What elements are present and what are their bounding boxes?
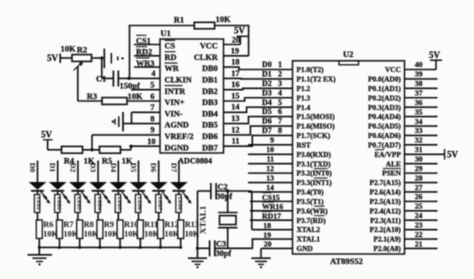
label ADC0804 [178, 157, 212, 166]
svg-text:7: 7 [150, 103, 154, 112]
resistor R10 10K [117, 213, 139, 239]
wire D6 bus DB6 to P1.6 [224, 126, 293, 135]
node D2 [262, 79, 282, 88]
wire [215, 25, 249, 27]
svg-text:VCC: VCC [385, 65, 401, 74]
resistor R1 [174, 14, 231, 29]
wire [38, 239, 40, 248]
svg-text:P0.6(AD6): P0.6(AD6) [368, 131, 401, 140]
svg-text:23: 23 [415, 220, 423, 229]
pin 32 [405, 136, 438, 145]
node D2 label [68, 163, 77, 173]
svg-text:LED5: LED5 [116, 197, 122, 211]
svg-text:LED1: LED1 [35, 197, 41, 211]
svg-text:5: 5 [278, 98, 282, 107]
capacitor C1 150pf [96, 71, 140, 91]
svg-text:P2.4(A12): P2.4(A12) [370, 206, 402, 215]
capacitor C3 30pf [210, 240, 232, 259]
svg-text:DB3: DB3 [202, 98, 218, 107]
wire [224, 25, 249, 56]
op-amp U2 AT89S52 IC body [293, 49, 405, 254]
pin 28 [405, 173, 438, 182]
svg-text:19: 19 [263, 230, 271, 239]
pin 40 [415, 60, 423, 69]
wire D2 bus DB2 to P1.2 [224, 88, 293, 89]
pin 38 [405, 79, 438, 88]
ground [112, 112, 123, 131]
wire [405, 60, 437, 69]
resistor R9 10K [97, 213, 119, 239]
svg-text:LED8: LED8 [177, 197, 183, 211]
svg-text:DB0: DB0 [202, 64, 218, 73]
wire [180, 239, 182, 248]
svg-text:U2: U2 [343, 49, 353, 59]
svg-text:38: 38 [415, 79, 423, 88]
pin 8 [150, 114, 154, 123]
power 5V [47, 53, 60, 63]
svg-text:DB2: DB2 [202, 87, 218, 96]
pin 21 [405, 239, 438, 248]
svg-text:ADC0804: ADC0804 [178, 157, 212, 166]
wire D7 bus DB7 to P1.7 [224, 135, 293, 146]
svg-text:P1.1(T2 EX): P1.1(T2 EX) [297, 75, 337, 84]
svg-text:P3.4(T0): P3.4(T0) [297, 188, 325, 197]
svg-text:8: 8 [150, 114, 154, 123]
wire [224, 36, 241, 44]
node D5 label [129, 163, 138, 173]
svg-text:19: 19 [231, 47, 239, 56]
svg-text:U1: U1 [161, 28, 171, 38]
svg-text:P1.0(T2): P1.0(T2) [297, 65, 325, 74]
svg-text:17: 17 [231, 69, 239, 78]
pin 24 [405, 211, 438, 220]
svg-text:LED4: LED4 [96, 197, 102, 211]
svg-text:9: 9 [150, 126, 154, 135]
LED D5 diode [130, 161, 152, 213]
svg-text:36: 36 [415, 98, 423, 107]
svg-text:14: 14 [231, 103, 239, 112]
svg-text:P1.5(MOSI): P1.5(MOSI) [297, 112, 336, 121]
svg-text:10K: 10K [185, 230, 200, 239]
node RD pin 17 [250, 211, 293, 220]
svg-text:20: 20 [264, 240, 272, 249]
svg-text:AT89S52: AT89S52 [330, 256, 363, 266]
pin 26 [405, 192, 438, 201]
pin 10 [147, 137, 155, 146]
wire [129, 25, 131, 79]
svg-text:R3: R3 [87, 91, 97, 101]
svg-text:R9: R9 [104, 220, 114, 229]
pin 19 [231, 47, 239, 56]
svg-text:D2: D2 [68, 163, 77, 173]
pin 14 [231, 103, 239, 112]
pin 12 [248, 164, 293, 173]
svg-text:ALE: ALE [386, 159, 401, 168]
svg-text:CS: CS [165, 42, 176, 51]
resistor R7 10K [57, 213, 79, 239]
svg-text:34: 34 [415, 117, 423, 126]
pin 31 EA/VPP to 5V [405, 145, 459, 160]
node D3 [262, 88, 282, 97]
svg-text:16: 16 [231, 80, 239, 89]
wire [196, 247, 210, 250]
svg-text:P1.4: P1.4 [297, 103, 311, 112]
node D5 [262, 107, 282, 116]
LED D7 diode [170, 161, 192, 213]
pin 22 [405, 230, 438, 239]
svg-text:R8: R8 [84, 220, 94, 229]
pin 13 [231, 114, 239, 123]
svg-text:D6: D6 [262, 117, 272, 126]
wire [215, 230, 293, 248]
pin 16 [231, 80, 239, 89]
svg-text:D7: D7 [169, 163, 178, 173]
svg-text:10: 10 [147, 137, 155, 146]
svg-text:P3.5(T1): P3.5(T1) [297, 197, 325, 206]
svg-text:LED3: LED3 [76, 197, 82, 211]
svg-text:21: 21 [415, 239, 423, 248]
power 5V [41, 130, 53, 150]
svg-text:CS1: CS1 [136, 36, 151, 45]
wire D1 bus DB1 to P1.1 [224, 77, 293, 80]
ground [104, 49, 123, 69]
svg-text:4: 4 [151, 69, 155, 78]
svg-text:DB1: DB1 [202, 76, 218, 85]
pin 30 [405, 155, 438, 164]
svg-text:6: 6 [278, 107, 282, 116]
svg-text:CLKR: CLKR [194, 53, 219, 62]
svg-text:P3.7(RD): P3.7(RD) [297, 216, 327, 225]
LED D4 diode [109, 161, 131, 213]
LED D0 diode [29, 161, 51, 213]
label AT89S52 [330, 256, 363, 266]
wire [197, 191, 199, 258]
svg-text:P2.1(A9): P2.1(A9) [373, 235, 401, 244]
svg-text:LED2: LED2 [55, 197, 61, 211]
svg-text:D7: D7 [262, 126, 272, 135]
resistor R13 10K [178, 213, 200, 239]
resistor R8 10K [77, 213, 99, 239]
svg-text:5V: 5V [447, 149, 459, 159]
node D6 label [149, 163, 158, 173]
wire D5 bus DB5 to P1.5 [224, 117, 293, 124]
svg-text:P1.7(SCK): P1.7(SCK) [297, 131, 331, 140]
svg-text:5V: 5V [47, 53, 59, 63]
wire [99, 239, 101, 248]
resistor R11 10K [137, 213, 159, 239]
pin 13 [248, 173, 293, 182]
svg-text:37: 37 [415, 89, 423, 98]
svg-text:DB7: DB7 [202, 143, 218, 152]
svg-text:24: 24 [415, 211, 423, 220]
wire [139, 239, 141, 248]
wire [252, 191, 293, 230]
node D0 label [28, 163, 37, 173]
wire [127, 100, 160, 102]
svg-text:31: 31 [415, 145, 423, 154]
svg-text:R10: R10 [124, 220, 138, 229]
svg-text:XTAL1: XTAL1 [297, 235, 321, 244]
wire [59, 239, 61, 248]
svg-text:8: 8 [278, 126, 282, 135]
wire [83, 148, 100, 151]
pin 6 [150, 92, 154, 101]
node D6 [262, 117, 282, 126]
svg-text:10K: 10K [60, 44, 76, 54]
LED D2 diode [69, 161, 91, 213]
svg-text:PSEN: PSEN [382, 169, 401, 178]
svg-text:P0.5(AD5): P0.5(AD5) [368, 122, 401, 131]
pin 33 [405, 126, 438, 135]
wire [79, 239, 81, 248]
svg-text:D2: D2 [262, 79, 272, 88]
svg-text:R2: R2 [77, 45, 87, 55]
svg-text:DGND: DGND [165, 143, 189, 152]
svg-text:VREF/2: VREF/2 [165, 132, 194, 141]
svg-text:30pf: 30pf [216, 249, 232, 258]
svg-text:30pf: 30pf [217, 192, 233, 201]
svg-text:D3: D3 [262, 88, 272, 97]
svg-text:R12: R12 [165, 220, 179, 229]
svg-text:D1: D1 [48, 163, 57, 173]
resistor R5 1K [100, 146, 133, 165]
svg-text:10K: 10K [216, 14, 232, 24]
svg-text:40: 40 [415, 60, 423, 69]
svg-text:P0.2(AD2): P0.2(AD2) [368, 93, 401, 102]
svg-text:D6: D6 [149, 163, 158, 173]
wire [198, 189, 252, 192]
wire D3 bus DB3 to P1.3 [224, 98, 293, 101]
svg-text:35: 35 [415, 107, 423, 116]
svg-text:P3.2(INT0): P3.2(INT0) [297, 169, 333, 178]
node D3 label [89, 163, 98, 173]
svg-text:RD: RD [165, 53, 177, 62]
pin 4 [151, 69, 155, 78]
wire [130, 25, 195, 27]
svg-text:5V: 5V [41, 130, 53, 140]
node CS pin 1 [134, 35, 160, 45]
svg-text:VCC: VCC [200, 42, 218, 51]
pin 12 [231, 125, 239, 134]
pin 11 [232, 137, 240, 146]
pin 14 [248, 183, 293, 192]
svg-text:C1: C1 [96, 74, 106, 84]
svg-text:12: 12 [231, 125, 239, 134]
pin 10 [248, 145, 293, 154]
wire [78, 66, 102, 101]
svg-text:P2.6(A14): P2.6(A14) [370, 188, 402, 197]
LED D6 diode [150, 161, 172, 213]
wire [261, 240, 293, 258]
svg-text:WR16: WR16 [262, 202, 283, 211]
svg-text:P2.2(A10): P2.2(A10) [370, 225, 402, 234]
svg-text:WR: WR [165, 64, 180, 73]
node D4 [262, 98, 282, 107]
pin 11 [248, 155, 293, 164]
svg-text:D3: D3 [89, 163, 98, 173]
svg-text:P1.6(MISO): P1.6(MISO) [297, 122, 336, 131]
svg-text:C3: C3 [216, 240, 226, 249]
svg-text:10K: 10K [127, 91, 143, 101]
svg-text:AGND: AGND [165, 121, 189, 130]
svg-text:P1.2: P1.2 [297, 84, 311, 93]
svg-text:WR3: WR3 [136, 59, 154, 68]
pin 34 [405, 117, 438, 126]
pin 7 [150, 103, 154, 112]
svg-text:26: 26 [415, 192, 423, 201]
svg-text:CLKIN: CLKIN [165, 76, 192, 85]
LED D1 diode [49, 161, 71, 213]
pin 25 [405, 202, 438, 211]
svg-text:33: 33 [415, 126, 423, 135]
svg-text:INTR: INTR [165, 87, 187, 96]
svg-text:25: 25 [415, 202, 423, 211]
svg-text:D0: D0 [28, 163, 37, 173]
pin 9 [150, 126, 154, 135]
node D7 label [169, 163, 178, 173]
svg-text:P3.0(RXD): P3.0(RXD) [297, 150, 332, 159]
crystal X1 [198, 191, 238, 248]
svg-text:R11: R11 [144, 220, 158, 229]
svg-text:5V: 5V [429, 50, 441, 60]
svg-text:P3.1(TXD): P3.1(TXD) [297, 159, 332, 168]
pin 18 [231, 58, 239, 67]
wire [118, 77, 160, 80]
svg-text:P3.3(INT1): P3.3(INT1) [297, 178, 333, 187]
svg-text:P2.5(A13): P2.5(A13) [370, 197, 402, 206]
power 5V [234, 26, 248, 37]
svg-text:30: 30 [415, 155, 423, 164]
wire [92, 135, 160, 150]
svg-text:RD2: RD2 [136, 48, 152, 57]
wire [121, 145, 161, 150]
resistor R6 10K [36, 213, 58, 239]
node D1 label [48, 163, 57, 173]
svg-text:P2.0(A8): P2.0(A8) [373, 244, 401, 253]
svg-text:D4: D4 [262, 98, 272, 107]
svg-text:C2: C2 [218, 183, 228, 192]
svg-text:D5: D5 [262, 107, 272, 116]
wire [131, 89, 160, 91]
node D7 [262, 126, 282, 135]
svg-text:29: 29 [415, 164, 423, 173]
resistor R2 10K potentiometer [60, 44, 91, 71]
svg-text:5V: 5V [234, 26, 246, 36]
svg-text:P2.7(A15): P2.7(A15) [370, 178, 402, 187]
svg-text:18: 18 [263, 221, 271, 230]
pin 17 [231, 69, 239, 78]
wire [119, 239, 121, 248]
svg-text:D5: D5 [129, 163, 138, 173]
resistor R12 10K [158, 213, 180, 239]
power 5V [429, 50, 442, 60]
svg-text:3: 3 [278, 79, 282, 88]
svg-text:39: 39 [415, 70, 423, 79]
svg-text:9: 9 [270, 136, 274, 145]
svg-text:LED6: LED6 [136, 197, 142, 211]
wire [92, 56, 104, 59]
pin 29 [405, 164, 438, 173]
pin 23 [405, 220, 438, 229]
svg-text:6: 6 [150, 92, 154, 101]
svg-text:P0.7(AD7): P0.7(AD7) [368, 140, 401, 149]
svg-text:22: 22 [415, 230, 423, 239]
wire D4 bus DB4 to P1.4 [224, 107, 293, 112]
wire D0 bus DB0 to P1.0 [224, 67, 293, 69]
wire LED ground rail [38, 246, 182, 249]
svg-text:D0: D0 [262, 60, 272, 69]
svg-text:RD17: RD17 [262, 212, 281, 221]
svg-text:P2.3(A11): P2.3(A11) [370, 216, 401, 225]
pin 5 [150, 81, 154, 90]
svg-text:DB5: DB5 [202, 121, 218, 130]
svg-text:27: 27 [415, 183, 423, 192]
svg-text:1: 1 [278, 60, 282, 69]
node RD pin 2 [134, 47, 160, 57]
wire [160, 239, 162, 248]
svg-text:14: 14 [266, 183, 274, 192]
resistor R3 [87, 91, 143, 104]
svg-text:15: 15 [231, 91, 239, 100]
svg-text:VIN-: VIN- [165, 109, 183, 118]
wire [123, 112, 160, 123]
svg-text:RST: RST [297, 140, 311, 149]
pin 36 [405, 98, 438, 107]
svg-text:18: 18 [231, 58, 239, 67]
wire [48, 149, 62, 151]
svg-text:11: 11 [267, 155, 274, 164]
svg-text:P0.4(AD4): P0.4(AD4) [368, 112, 401, 121]
node WR pin 16 [250, 202, 293, 211]
ground [188, 258, 207, 268]
svg-text:DB6: DB6 [202, 132, 218, 141]
svg-text:5: 5 [150, 81, 154, 90]
svg-text:D1: D1 [262, 70, 272, 79]
svg-text:VIN+: VIN+ [165, 98, 185, 107]
ground [251, 258, 270, 268]
svg-text:20: 20 [232, 35, 240, 44]
pin 9 [248, 136, 293, 145]
svg-text:XTAL2: XTAL2 [297, 225, 321, 234]
svg-text:2: 2 [278, 70, 282, 79]
svg-text:10: 10 [266, 145, 274, 154]
node WR pin 3 [134, 58, 160, 68]
svg-text:CS15: CS15 [262, 193, 280, 202]
svg-text:R13: R13 [185, 220, 199, 229]
svg-text:13: 13 [266, 173, 274, 182]
svg-text:P0.1(AD1): P0.1(AD1) [368, 84, 401, 93]
node D0 [262, 60, 282, 69]
pin 35 [405, 107, 438, 116]
ground [28, 247, 53, 265]
svg-text:13: 13 [231, 114, 239, 123]
svg-text:GND: GND [297, 244, 313, 253]
wire [102, 58, 113, 78]
pin 20 [232, 35, 240, 44]
svg-text:LED7: LED7 [156, 197, 162, 211]
svg-text:4: 4 [278, 88, 282, 97]
svg-text:28: 28 [415, 173, 423, 182]
pin 15 [231, 91, 239, 100]
LED D3 diode [89, 161, 111, 213]
svg-text:DB4: DB4 [202, 109, 218, 118]
capacitor C2 30pf [211, 183, 233, 201]
svg-text:P3.6(WR): P3.6(WR) [297, 206, 329, 215]
svg-text:EA/VPP: EA/VPP [374, 150, 401, 159]
resistor R4 1K [62, 146, 95, 165]
svg-text:32: 32 [415, 136, 423, 145]
svg-text:R7: R7 [64, 220, 74, 229]
